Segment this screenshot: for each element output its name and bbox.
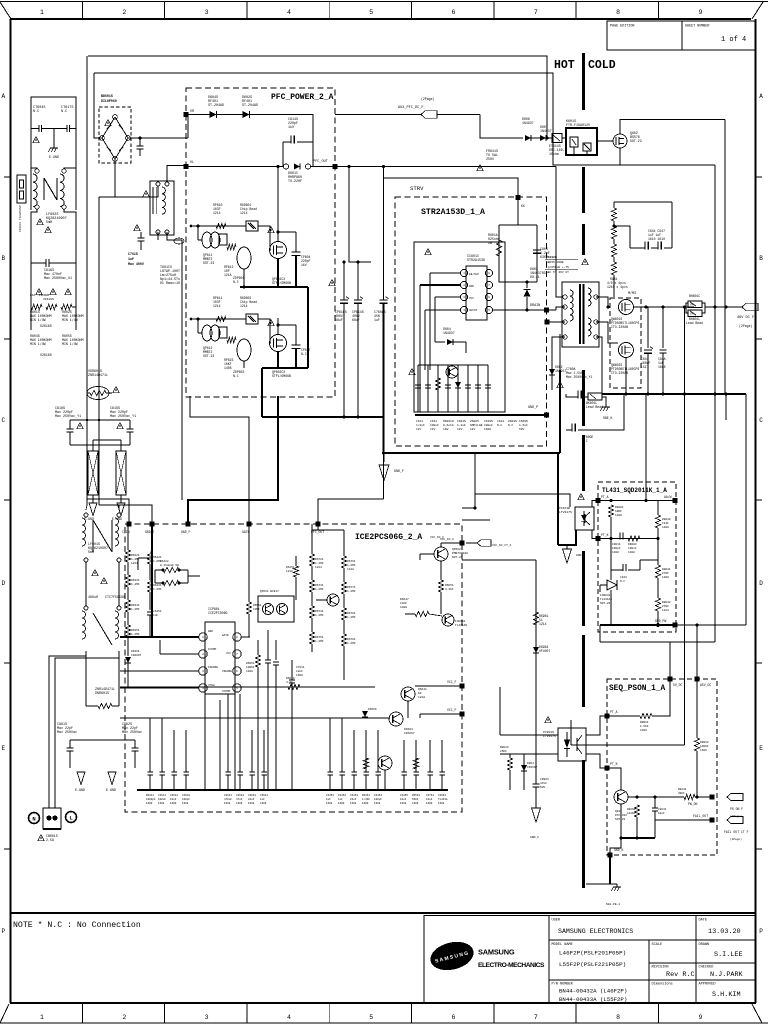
line filter LF601S bbox=[84, 513, 88, 517]
transistor Q842 bbox=[614, 790, 628, 804]
svg-text:C611: C611 bbox=[416, 420, 423, 423]
svg-text:COLD: COLD bbox=[588, 59, 616, 72]
svg-text:R6741: R6741 bbox=[315, 610, 324, 613]
svg-text:L55F2P(PSLF221P05P): L55F2P(PSLF221P05P) bbox=[559, 961, 626, 968]
ground GND_F x536 bbox=[532, 808, 541, 822]
svg-text:R6321: R6321 bbox=[131, 554, 140, 557]
svg-text:5V_DC: 5V_DC bbox=[673, 683, 683, 687]
svg-text:BD601S: BD601S bbox=[101, 94, 113, 98]
svg-text:2: 2 bbox=[122, 9, 126, 16]
seq pt_a wire bbox=[607, 715, 640, 717]
row ticks bbox=[4, 176, 10, 178]
svg-text:GND_PW: GND_PW bbox=[655, 619, 666, 623]
svg-text:BN44-00432A (L46F2P): BN44-00432A (L46F2P) bbox=[559, 988, 627, 995]
svg-text:Q6562: Q6562 bbox=[452, 548, 461, 551]
svg-text:VSENSE: VSENSE bbox=[222, 670, 232, 673]
svg-text:1608: 1608 bbox=[412, 802, 419, 805]
svg-text:1.2MF: 1.2MF bbox=[347, 616, 356, 619]
module box STR2A153D_1_A bbox=[395, 197, 547, 446]
node VL bbox=[184, 164, 189, 169]
wire gnde drop bbox=[99, 505, 152, 524]
wire VR rail bbox=[186, 115, 313, 143]
svg-text:P/N NUMBER: P/N NUMBER bbox=[552, 982, 574, 987]
ic bottom pin wires bbox=[204, 694, 206, 755]
svg-text:VR: VR bbox=[190, 110, 194, 114]
svg-text:R6771: R6771 bbox=[347, 586, 356, 589]
pw_on path bbox=[684, 794, 695, 799]
svg-text:BN44-00433A (L55F2P): BN44-00433A (L55F2P) bbox=[559, 996, 627, 1003]
svg-text:DimensIons: DimensIons bbox=[652, 982, 673, 987]
svg-text:1608: 1608 bbox=[182, 802, 189, 805]
svg-text:EER35 CORE: EER35 CORE bbox=[546, 261, 564, 264]
svg-text:C660S: C660S bbox=[519, 420, 528, 423]
svg-text:Max 250Vac: Max 250Vac bbox=[57, 731, 77, 735]
svg-text:SAMSUNG: SAMSUNG bbox=[478, 948, 515, 957]
svg-text:REVISION: REVISION bbox=[652, 966, 669, 970]
svg-text:GND_K: GND_K bbox=[614, 848, 624, 852]
svg-text:Lp=650uH +-7%: Lp=650uH +-7% bbox=[546, 266, 569, 269]
svg-text:1608: 1608 bbox=[338, 802, 345, 805]
svg-text:PFC_OUT: PFC_OUT bbox=[311, 530, 324, 534]
inner circuit box bbox=[414, 242, 505, 412]
tl431 gnd bus bbox=[600, 624, 675, 626]
svg-text:R6791: R6791 bbox=[347, 638, 356, 641]
svg-text:X2618S: X2618S bbox=[43, 298, 54, 301]
svg-text:LXZ: LXZ bbox=[641, 365, 647, 369]
svg-text:1.5uF: 1.5uF bbox=[519, 424, 528, 427]
wires down left loop bbox=[30, 263, 32, 307]
cap C760GE bbox=[578, 429, 584, 431]
svg-text:1kV: 1kV bbox=[416, 427, 422, 431]
svg-text:1kV: 1kV bbox=[288, 125, 294, 130]
resistor network R1 bbox=[88, 451, 98, 495]
wire str to bus bbox=[546, 414, 548, 416]
svg-text:ELECTRO-MECHANICS: ELECTRO-MECHANICS bbox=[478, 962, 545, 969]
mosfet Q602 bbox=[613, 134, 627, 148]
svg-text:22uF: 22uF bbox=[248, 798, 255, 801]
wire choke to VL bbox=[167, 166, 186, 182]
wire primary top bbox=[556, 167, 562, 298]
svg-text:1214: 1214 bbox=[240, 211, 248, 215]
svg-text:PAGE EDITION: PAGE EDITION bbox=[610, 25, 634, 29]
svg-text:B: B bbox=[1, 255, 5, 262]
svg-text:R6461: R6461 bbox=[362, 794, 370, 797]
svg-text:S.I.LEE: S.I.LEE bbox=[714, 951, 743, 959]
svg-text:MIN 1/4W: MIN 1/4W bbox=[62, 318, 78, 322]
svg-text:AUX_PFC_DC_F: AUX_PFC_DC_F bbox=[398, 106, 424, 110]
svg-text:N.C: N.C bbox=[233, 280, 239, 284]
svg-text:Max 250Vac_Y1: Max 250Vac_Y1 bbox=[55, 415, 81, 419]
svg-text:SCALE: SCALE bbox=[652, 943, 663, 947]
zener D6361 bbox=[125, 657, 131, 663]
connector 46V_DC_F bbox=[742, 303, 758, 311]
svg-text:VCC: VCC bbox=[226, 652, 231, 655]
svg-text:Q6641: Q6641 bbox=[418, 688, 427, 691]
svg-text:PT_K: PT_K bbox=[601, 533, 609, 537]
svg-text:C14F: C14F bbox=[662, 522, 669, 525]
svg-text:1214: 1214 bbox=[662, 609, 669, 612]
node GND_PW bbox=[673, 623, 678, 628]
ruler ticks bottom bbox=[81, 1004, 83, 1023]
snubber loop bbox=[499, 224, 537, 226]
svg-text:100pF: 100pF bbox=[374, 798, 382, 801]
svg-text:1214: 1214 bbox=[131, 562, 138, 565]
svg-text:R6051: R6051 bbox=[246, 662, 255, 665]
svg-text:MIN 1/4W: MIN 1/4W bbox=[30, 342, 46, 346]
svg-text:C6961: C6961 bbox=[438, 794, 446, 797]
svg-text:1608: 1608 bbox=[170, 802, 177, 805]
wire VL rail bbox=[186, 166, 284, 168]
svg-text:(2Page): (2Page) bbox=[421, 97, 434, 101]
svg-text:HOT: HOT bbox=[554, 59, 575, 72]
right rails bbox=[684, 307, 686, 394]
svg-text:1.2MF: 1.2MF bbox=[347, 590, 356, 593]
svg-text:1.2MF: 1.2MF bbox=[131, 583, 140, 586]
svg-text:9: 9 bbox=[698, 9, 702, 16]
svg-text:490uH: 490uH bbox=[88, 596, 98, 600]
svg-text:1608: 1608 bbox=[158, 802, 165, 805]
svg-text:C6611: C6611 bbox=[158, 794, 166, 797]
svg-text:L46F2P(PSLF201P05P): L46F2P(PSLF201P05P) bbox=[559, 950, 626, 957]
svg-text:SOT-23: SOT-23 bbox=[615, 818, 626, 821]
svg-text:SEC 5T 46V 6T: SEC 5T 46V 6T bbox=[546, 271, 569, 274]
svg-text:KX: KX bbox=[521, 204, 525, 208]
svg-text:ICB841: ICB841 bbox=[600, 594, 611, 597]
svg-text:47uF: 47uF bbox=[236, 798, 243, 801]
diode D602S bbox=[243, 111, 250, 118]
module box SEQ_PSON_1_A bbox=[607, 679, 717, 855]
bold gnd path bbox=[151, 524, 153, 637]
svg-text:R6647: R6647 bbox=[400, 598, 409, 601]
ice left resistor ladder 1 bbox=[125, 550, 130, 562]
svg-text:L04KF: L04KF bbox=[627, 812, 636, 815]
svg-text:Max 2500Vac_X1: Max 2500Vac_X1 bbox=[44, 277, 72, 281]
svg-text:GND: GND bbox=[208, 630, 213, 633]
capacitor CP617 bbox=[295, 325, 297, 345]
svg-text:68uF: 68uF bbox=[352, 318, 360, 322]
diode D607 bbox=[540, 135, 546, 141]
vcc aux parts bbox=[551, 360, 553, 390]
svg-text:Lead Bead: Lead Bead bbox=[686, 321, 703, 325]
svg-text:D864: D864 bbox=[527, 762, 534, 765]
svg-text:AA/W: AA/W bbox=[664, 495, 672, 499]
node 5V_DC bbox=[668, 677, 673, 682]
transformer T601CH bbox=[562, 282, 599, 347]
svg-text:FAIL_OUT: FAIL_OUT bbox=[693, 814, 708, 818]
sync rect box bbox=[610, 298, 641, 388]
svg-text:C8011: C8011 bbox=[612, 543, 621, 546]
svg-text:C7611: C7611 bbox=[296, 666, 305, 669]
svg-text:5: 5 bbox=[369, 9, 373, 16]
module box PFC_POWER_2_A bbox=[186, 88, 335, 397]
svg-text:39KF: 39KF bbox=[678, 792, 685, 795]
earth ground E-GND bbox=[53, 129, 55, 146]
svg-text:GND_P: GND_P bbox=[528, 406, 538, 410]
svg-text:10uF: 10uF bbox=[426, 798, 433, 801]
svg-text:R8044: R8044 bbox=[678, 788, 687, 791]
wire to mains connector bbox=[48, 660, 50, 808]
svg-text:R662A: R662A bbox=[286, 677, 295, 680]
svg-text:1000pF: 1000pF bbox=[146, 798, 156, 801]
svg-text:ICD662: ICD662 bbox=[455, 620, 466, 623]
cap C843 bbox=[610, 539, 612, 571]
svg-text:D6606: D6606 bbox=[368, 708, 377, 711]
svg-text:GND_F: GND_F bbox=[181, 530, 191, 534]
svg-text:N.C: N.C bbox=[620, 580, 625, 583]
note separator bbox=[10, 912, 756, 914]
node AA top right bbox=[673, 498, 678, 503]
svg-text:(2Page): (2Page) bbox=[730, 814, 742, 818]
diode D603 bbox=[526, 282, 528, 288]
svg-text:1.2MF: 1.2MF bbox=[153, 588, 162, 591]
svg-text:0.16ohmF 5W: 0.16ohmF 5W bbox=[160, 563, 179, 567]
diode D604S bbox=[210, 111, 217, 118]
capacitor C761S bbox=[140, 232, 142, 238]
wire choke bottom bbox=[157, 232, 159, 240]
svg-text:1/3KF: 1/3KF bbox=[362, 797, 370, 801]
bulk capacitor CP614S bbox=[357, 262, 359, 300]
svg-text:12uF: 12uF bbox=[296, 670, 303, 673]
title block dividers bbox=[548, 916, 550, 1004]
svg-text:13.03.20: 13.03.20 bbox=[708, 928, 741, 936]
svg-text:DNR601S: DNR601S bbox=[95, 692, 109, 696]
svg-text:R6331: R6331 bbox=[131, 579, 140, 582]
svg-text:R6761: R6761 bbox=[347, 560, 356, 563]
resistor network R2 bbox=[116, 451, 126, 495]
svg-text:Z604S: Z604S bbox=[508, 420, 517, 423]
tl431 network bbox=[598, 500, 675, 502]
svg-text:5: 5 bbox=[369, 1014, 373, 1021]
svg-text:N.C: N.C bbox=[497, 424, 503, 427]
svg-text:R8003: R8003 bbox=[628, 543, 637, 546]
svg-text:7: 7 bbox=[534, 1014, 538, 1021]
svg-text:121A: 121A bbox=[286, 570, 293, 573]
svg-text:1608: 1608 bbox=[426, 802, 433, 805]
svg-text:C6451: C6451 bbox=[326, 794, 334, 797]
wire cross mid bbox=[70, 444, 130, 446]
svg-text:1610 1610: 1610 1610 bbox=[648, 237, 665, 241]
svg-text:1N4937: 1N4937 bbox=[443, 331, 455, 335]
beads BH801L pair bbox=[688, 301, 702, 308]
svg-text:R6351: R6351 bbox=[131, 629, 140, 632]
svg-text:STR2A153D: STR2A153D bbox=[467, 259, 485, 263]
svg-text:D6361: D6361 bbox=[131, 650, 140, 653]
svg-text:ST-204AD: ST-204AD bbox=[242, 104, 258, 108]
svg-text:KZ: KZ bbox=[418, 692, 422, 695]
terminal L bbox=[66, 812, 77, 823]
svg-text:5mH: 5mH bbox=[46, 221, 52, 225]
svg-text:2: 2 bbox=[122, 1014, 126, 1021]
opto2 wires bbox=[500, 734, 558, 736]
svg-text:1: 1 bbox=[40, 1014, 44, 1021]
svg-text:ICOMP: ICOMP bbox=[208, 648, 217, 651]
svg-text:Z606S: Z606S bbox=[470, 420, 479, 423]
driver QDP601 bbox=[237, 247, 251, 269]
svg-text:100uF: 100uF bbox=[158, 798, 166, 801]
ground E-GND pair 2 bbox=[77, 772, 85, 784]
svg-text:USER: USER bbox=[552, 919, 561, 923]
bulk capacitor CP618 bbox=[343, 262, 345, 300]
svg-text:1.2MF: 1.2MF bbox=[131, 633, 140, 636]
wire from ice to opto region bbox=[461, 504, 463, 506]
svg-text:C6612: C6612 bbox=[170, 794, 178, 797]
svg-text:SOT-23: SOT-23 bbox=[452, 556, 463, 559]
svg-text:R6751: R6751 bbox=[315, 636, 324, 639]
svg-text:VCC_DC_F: VCC_DC_F bbox=[440, 538, 454, 541]
ice bottom transistors bbox=[401, 687, 415, 701]
node VR bbox=[184, 112, 189, 117]
svg-text:3: 3 bbox=[205, 1014, 209, 1021]
vcc out nodes bbox=[460, 541, 465, 546]
svg-text:SAMSUNG ELECTRONICS: SAMSUNG ELECTRONICS bbox=[558, 928, 633, 935]
svg-text:A: A bbox=[759, 93, 763, 100]
node PT_K seq bbox=[605, 766, 610, 771]
svg-text:TL431_SQD2011K_1_A: TL431_SQD2011K_1_A bbox=[602, 487, 667, 494]
line filter LF602S bbox=[35, 169, 39, 173]
svg-text:STPL/GM66B: STPL/GM66B bbox=[272, 374, 291, 378]
sheet header boxes bbox=[607, 21, 682, 50]
svg-text:10uF: 10uF bbox=[400, 798, 407, 801]
pfc gate drive channel 2 bbox=[191, 318, 246, 320]
resistor ladder R841 bbox=[611, 208, 616, 221]
bead ET614S bbox=[552, 134, 562, 143]
svg-text:1.2MF: 1.2MF bbox=[315, 588, 324, 591]
svg-text:DRAIN: DRAIN bbox=[530, 304, 540, 308]
svg-text:1608: 1608 bbox=[146, 802, 153, 805]
svg-text:GND_F: GND_F bbox=[394, 470, 404, 474]
svg-text:4.3KF: 4.3KF bbox=[445, 588, 454, 591]
svg-text:VL: VL bbox=[190, 161, 194, 165]
wire left bus c bbox=[30, 307, 32, 330]
wire y745 bbox=[571, 744, 685, 746]
aux rail x536 bbox=[535, 560, 537, 680]
mains connector CN601S bbox=[43, 808, 61, 829]
wire bridge in bbox=[93, 111, 95, 131]
pfc gate drive channel 1 bbox=[191, 225, 246, 227]
secondary wires bbox=[596, 297, 608, 307]
svg-text:1N4937: 1N4937 bbox=[555, 369, 566, 373]
svg-text:Max 400V: Max 400V bbox=[128, 262, 144, 266]
svg-text:Max 250Vac_Y1: Max 250Vac_Y1 bbox=[110, 415, 136, 419]
svg-text:Lead Bead: Lead Bead bbox=[586, 405, 603, 409]
svg-text:1408: 1408 bbox=[640, 729, 647, 732]
wire pfcout drop bbox=[318, 499, 384, 524]
svg-text:R8060: R8060 bbox=[627, 808, 636, 811]
svg-text:R6721: R6721 bbox=[315, 558, 324, 561]
svg-text:N.C: N.C bbox=[301, 352, 307, 356]
svg-text:121A: 121A bbox=[347, 568, 354, 571]
svg-text:D: D bbox=[759, 580, 763, 587]
node PFC_OUT bbox=[333, 164, 338, 169]
svg-text:ITO-220AB: ITO-220AB bbox=[611, 371, 628, 375]
svg-text:E-GND: E-GND bbox=[106, 789, 116, 793]
opto1 wires bbox=[462, 507, 475, 509]
capacitor C760AS bbox=[383, 167, 385, 301]
svg-text:1608: 1608 bbox=[248, 802, 255, 805]
svg-text:R8042: R8042 bbox=[662, 601, 671, 604]
svg-text:46V DC F: 46V DC F bbox=[737, 316, 754, 320]
diode D606 bbox=[525, 135, 531, 141]
svg-text:1/2uF: 1/2uF bbox=[416, 423, 425, 427]
node PT_A seq bbox=[605, 714, 610, 719]
wire bridge top to VR bbox=[128, 137, 188, 139]
svg-text:47uF: 47uF bbox=[540, 782, 547, 785]
vertical rail x645 bbox=[645, 394, 647, 501]
module box TL431_SQD2011K_1_A bbox=[598, 482, 676, 632]
ice mid ladder 2 bbox=[341, 556, 346, 568]
svg-text:GND_F: GND_F bbox=[576, 553, 585, 557]
node PT_A bbox=[596, 498, 601, 503]
driver QDP602 bbox=[237, 339, 251, 361]
svg-text:FS601S T4AH250VP: FS601S T4AH250VP bbox=[19, 205, 22, 232]
str parts row bbox=[417, 365, 419, 412]
warning mark bbox=[33, 137, 39, 143]
svg-text:P: P bbox=[759, 928, 763, 935]
svg-text:1.2uF: 1.2uF bbox=[457, 424, 466, 427]
svg-text:ITO-220AB: ITO-220AB bbox=[611, 325, 628, 329]
wire sync gate bbox=[596, 322, 618, 343]
svg-text:2.5A: 2.5A bbox=[46, 838, 54, 842]
capacitor C617S bbox=[137, 145, 144, 147]
svg-text:PW_ON: PW_ON bbox=[688, 802, 698, 806]
svg-text:SOT-23: SOT-23 bbox=[630, 139, 642, 143]
svg-text:Max 2500Vac_Y1: Max 2500Vac_Y1 bbox=[566, 375, 593, 379]
capacitor C616S X2 bbox=[45, 259, 47, 267]
svg-text:1408: 1408 bbox=[400, 606, 407, 609]
gnd pw wire bbox=[675, 624, 746, 626]
svg-text:S.H.KIM: S.H.KIM bbox=[712, 991, 741, 999]
svg-text:SEQ_PSON_1_A: SEQ_PSON_1_A bbox=[609, 685, 665, 693]
relay wiring bbox=[597, 140, 613, 142]
ground GND_F mid bbox=[383, 453, 385, 462]
svg-text:1.2MF: 1.2MF bbox=[347, 564, 356, 567]
svg-text:68OF: 68OF bbox=[615, 510, 622, 513]
svg-text:BH801C: BH801C bbox=[689, 294, 700, 298]
svg-text:1608: 1608 bbox=[658, 365, 666, 369]
svg-text:N.C: N.C bbox=[61, 110, 67, 114]
pfc out feed bbox=[317, 524, 319, 530]
svg-text:TL431AN: TL431AN bbox=[455, 624, 467, 627]
ice left ladder 2 bbox=[147, 552, 152, 564]
svg-text:E: E bbox=[1, 745, 5, 752]
terminal N bbox=[29, 813, 40, 824]
svg-text:100KF: 100KF bbox=[246, 666, 255, 669]
mosfet QW601S bbox=[619, 300, 634, 315]
svg-text:R6781: R6781 bbox=[347, 612, 356, 615]
svg-text:1kV: 1kV bbox=[457, 427, 463, 431]
svg-text:1608: 1608 bbox=[374, 802, 381, 805]
mid transistor Q641 bbox=[327, 594, 339, 606]
svg-text:10ohm: 10ohm bbox=[549, 152, 559, 156]
svg-text:SOT-23: SOT-23 bbox=[600, 602, 611, 605]
svg-text:VCC_DC_CT_F: VCC_DC_CT_F bbox=[492, 544, 512, 547]
title block outer bbox=[424, 916, 755, 1004]
svg-text:CPA667: CPA667 bbox=[404, 732, 415, 735]
capacitor C604 bbox=[533, 249, 541, 251]
ice vcc f nodes bbox=[460, 684, 465, 689]
svg-text:DILGP060: DILGP060 bbox=[101, 99, 117, 103]
svg-text:1kW: 1kW bbox=[443, 427, 449, 431]
mid caps bbox=[267, 630, 269, 660]
svg-text:1: 1 bbox=[40, 9, 44, 16]
svg-text:N.C: N.C bbox=[233, 374, 239, 378]
svg-text:6: 6 bbox=[452, 1014, 456, 1021]
resistor RP613 bbox=[227, 244, 236, 249]
svg-text:VCC_F: VCC_F bbox=[447, 680, 457, 684]
svg-text:1.2MF: 1.2MF bbox=[347, 642, 356, 645]
power mosfet QP601CX bbox=[270, 242, 287, 259]
svg-text:R6651: R6651 bbox=[445, 584, 454, 587]
